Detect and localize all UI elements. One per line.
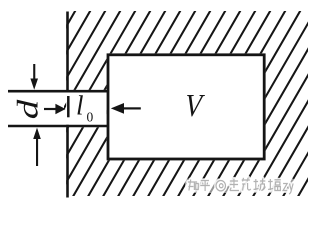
zy bbox=[283, 184, 293, 195]
wall left face line (lower segment) bbox=[66, 125, 69, 198]
tube bottom wall line bbox=[8, 125, 109, 128]
知 bbox=[188, 180, 198, 191]
tube top wall line bbox=[8, 90, 109, 93]
@ bbox=[216, 181, 225, 191]
svg-text:l: l bbox=[76, 91, 84, 121]
dimension arrow l0 (left-pointing, inside vessel) bbox=[111, 103, 141, 114]
dimension arrow d (down arrow above tube) bbox=[30, 64, 38, 90]
筑 bbox=[242, 178, 251, 191]
dimension arrow l0 (right-pointing, outside wall) bbox=[44, 104, 66, 115]
乎 bbox=[200, 181, 210, 192]
乎 bbox=[200, 181, 210, 192]
svg-text:d: d bbox=[11, 99, 45, 119]
建 bbox=[230, 179, 239, 191]
dimension arrow d (up arrow below tube) bbox=[33, 128, 41, 166]
watermark halo band bbox=[185, 179, 295, 194]
玻 bbox=[254, 179, 266, 191]
@ bbox=[216, 181, 225, 191]
wall left face line (upper segment) bbox=[66, 12, 69, 93]
璃 bbox=[268, 179, 281, 191]
vessel V (rectangle) bbox=[108, 55, 264, 159]
建 bbox=[230, 179, 239, 191]
知 bbox=[188, 180, 198, 191]
dimension extension tick at wall left face bbox=[67, 96, 70, 117]
璃 bbox=[268, 179, 281, 191]
zy bbox=[283, 184, 293, 195]
玻 bbox=[254, 179, 266, 191]
watermark glyphs (知乎 @建筑玻璃zy) bbox=[188, 178, 293, 194]
筑 bbox=[242, 178, 251, 191]
svg-text:0: 0 bbox=[87, 110, 94, 125]
